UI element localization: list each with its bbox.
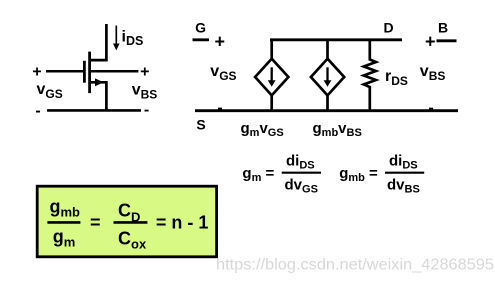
svg-text:https://blog.csdn.net/weixin_4: https://blog.csdn.net/weixin_42868595 xyxy=(216,257,494,274)
terminal D label xyxy=(384,20,394,36)
equation gm fraction bar xyxy=(282,172,321,174)
minus sign (vBS -) xyxy=(144,102,149,119)
svg-text:vGS: vGS xyxy=(37,81,63,101)
box fraction bar CD/Cox xyxy=(114,221,148,224)
svg-text:vGS: vGS xyxy=(210,63,236,83)
equation gmb = diDS/dvBS : gmb= xyxy=(339,165,378,184)
label rDS xyxy=(385,68,408,88)
terminal G label xyxy=(195,20,206,36)
transistor M1 gate wire xyxy=(46,70,83,73)
transistor M1 channel bar xyxy=(88,52,91,94)
transistor M1 drain wire xyxy=(90,24,107,60)
svg-text:vBS: vBS xyxy=(420,63,446,83)
label vGS (equivalent circuit) xyxy=(210,63,236,83)
svg-text:vBS: vBS xyxy=(132,82,158,102)
terminal B stub xyxy=(437,39,457,42)
minus sign left of rail xyxy=(217,100,222,117)
label vBS (left figure) xyxy=(132,82,158,102)
box fraction denominator gm xyxy=(53,227,76,250)
equation gmb fraction denominator dvBS xyxy=(387,177,420,196)
svg-text:rDS: rDS xyxy=(385,68,408,88)
bottom rail S xyxy=(195,109,458,112)
terminal G stub xyxy=(193,38,210,41)
svg-text:-: - xyxy=(144,102,149,119)
box fraction numerator CD xyxy=(118,201,140,225)
svg-text:gmb =: gmb = xyxy=(339,165,378,184)
svg-text:-: - xyxy=(217,100,222,117)
watermark xyxy=(216,257,494,274)
minus sign right of rail xyxy=(428,100,433,117)
svg-text:gmbvBS: gmbvBS xyxy=(313,120,362,139)
equation gmb fraction bar xyxy=(385,172,424,174)
svg-text:=: = xyxy=(90,213,101,233)
svg-text:+: + xyxy=(140,64,149,81)
equation gm = diDS/dvGS : gm= xyxy=(242,165,274,184)
plus sign (vBS +) xyxy=(140,64,149,81)
transistor M1 source wire with arrow xyxy=(91,78,107,110)
transistor M1 bulk wire xyxy=(91,70,138,73)
svg-text:-: - xyxy=(35,103,40,120)
box result = n - 1 xyxy=(156,213,209,233)
label gmvGS xyxy=(241,120,284,139)
svg-text:+: + xyxy=(32,64,41,81)
minus sign (vGS -) xyxy=(35,103,40,120)
terminal S label xyxy=(196,117,205,133)
svg-text:G: G xyxy=(195,20,206,36)
svg-text:B: B xyxy=(438,20,448,36)
box fraction bar gmb/gm xyxy=(47,221,80,224)
svg-text:diDS: diDS xyxy=(286,153,315,172)
svg-text:D: D xyxy=(384,20,394,36)
label gmbvBS xyxy=(313,120,362,139)
svg-text:S: S xyxy=(196,117,205,133)
box equals 1 xyxy=(90,213,101,233)
equation gm fraction denominator dvGS xyxy=(285,177,318,196)
svg-text:diDS: diDS xyxy=(389,153,418,172)
svg-text:iDS: iDS xyxy=(122,29,144,49)
current source gmbvBS xyxy=(311,41,344,111)
current arrow iDS xyxy=(113,26,120,51)
equation gmb fraction numerator diDS xyxy=(389,153,418,172)
box fraction numerator gmb xyxy=(50,197,81,220)
svg-text:dvGS: dvGS xyxy=(285,177,318,196)
svg-text:dvBS: dvBS xyxy=(387,177,420,196)
label vGS (left figure) xyxy=(37,81,63,101)
svg-text:+: + xyxy=(215,32,226,52)
label iDS xyxy=(122,29,144,49)
label vBS (equivalent circuit) xyxy=(420,63,446,83)
svg-text:-: - xyxy=(428,100,433,117)
top rail D xyxy=(270,38,402,41)
svg-text:= n - 1: = n - 1 xyxy=(156,213,209,233)
terminal B label xyxy=(438,20,448,36)
highlighted result box xyxy=(37,186,216,257)
plus sign at G xyxy=(215,32,226,52)
box fraction denominator Cox xyxy=(118,229,147,252)
equation gm fraction numerator diDS xyxy=(286,153,315,172)
source bottom rail (left figure) xyxy=(47,109,141,112)
svg-text:gmvGS: gmvGS xyxy=(241,120,284,139)
plus sign at B xyxy=(425,32,436,52)
resistor rDS xyxy=(364,41,376,111)
svg-text:+: + xyxy=(425,32,436,52)
svg-text:gm =: gm = xyxy=(242,165,274,184)
plus sign (vGS +) xyxy=(32,64,41,81)
transistor M1 gate plate xyxy=(83,61,86,83)
current source gmvGS xyxy=(255,41,288,111)
